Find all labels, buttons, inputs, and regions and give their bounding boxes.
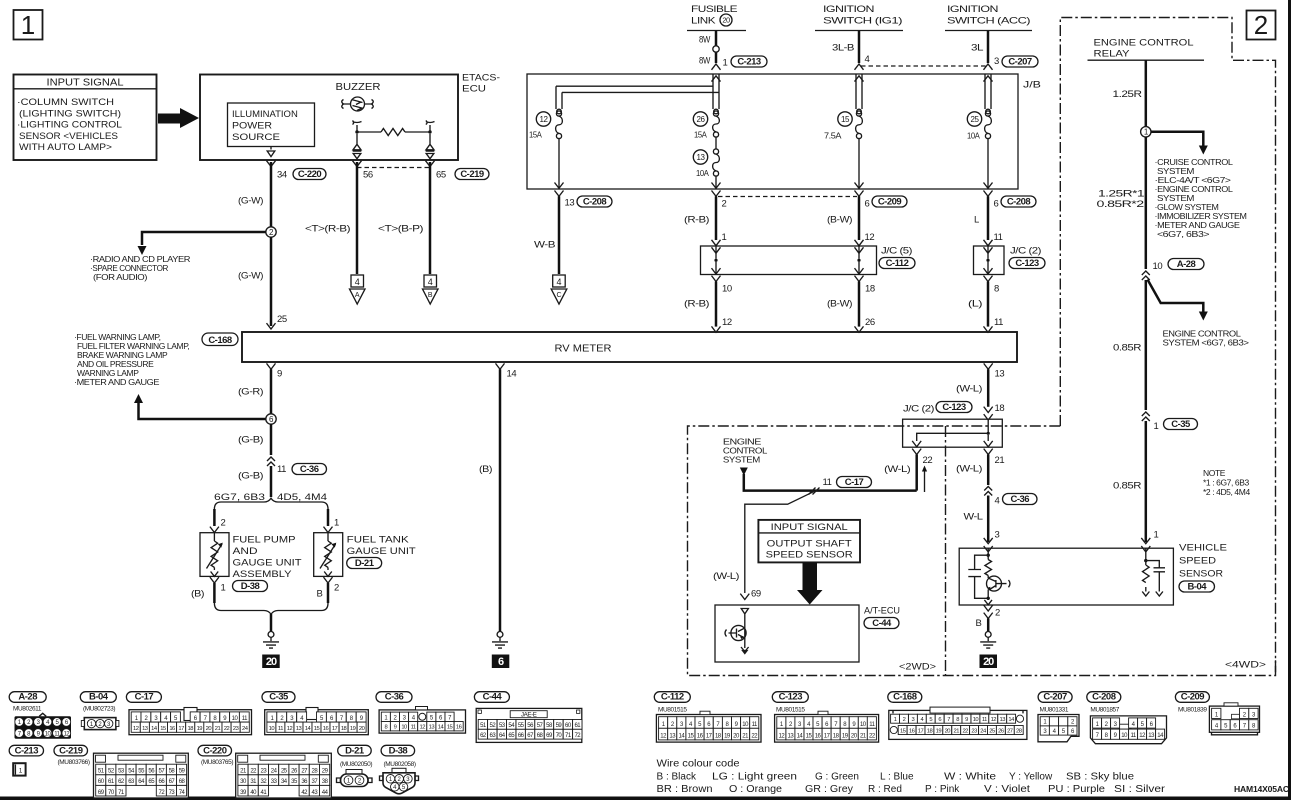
svg-text:C-123: C-123 xyxy=(1015,258,1039,269)
C-112 tab xyxy=(700,711,710,714)
svg-text:26: 26 xyxy=(998,728,1004,734)
node 1 junction xyxy=(1141,127,1151,137)
busbar ACC xyxy=(985,74,991,109)
svg-text:WITH AUTO LAMP>: WITH AUTO LAMP> xyxy=(19,142,112,153)
svg-text:(R-B): (R-B) xyxy=(684,299,709,310)
svg-text:9: 9 xyxy=(277,369,282,380)
svg-text:L: L xyxy=(974,215,979,226)
svg-text:11: 11 xyxy=(982,717,987,723)
svg-text:(W-L): (W-L) xyxy=(884,464,910,475)
svg-text:HAM14X05AC: HAM14X05AC xyxy=(1234,784,1289,794)
connector C-123 drawing xyxy=(775,715,879,743)
svg-text:C-17: C-17 xyxy=(135,692,154,703)
ground marker 20 (4WD) xyxy=(980,655,998,669)
wire colour code xyxy=(657,759,1166,796)
svg-text:10: 10 xyxy=(973,717,979,723)
svg-text:23: 23 xyxy=(971,728,977,734)
svg-text:13: 13 xyxy=(142,726,148,732)
pin 69 xyxy=(740,589,761,600)
svg-text:C-220: C-220 xyxy=(203,745,227,756)
svg-text:A/T-ECU: A/T-ECU xyxy=(864,606,900,617)
fuel pump text + D-38 xyxy=(233,535,302,581)
connector C-208 drawing xyxy=(1090,716,1166,744)
svg-text:4: 4 xyxy=(355,277,360,287)
svg-text:W : White: W : White xyxy=(944,772,997,783)
svg-text:MU801515: MU801515 xyxy=(658,707,687,714)
connector label D-21 xyxy=(338,745,372,756)
svg-text:10A: 10A xyxy=(696,168,709,178)
svg-text:22: 22 xyxy=(224,726,230,732)
svg-text:C-36: C-36 xyxy=(385,692,404,703)
svg-text:POWER: POWER xyxy=(232,121,272,132)
svg-text:C-219: C-219 xyxy=(59,745,83,756)
connector label C-208 xyxy=(1087,692,1121,703)
svg-text:8: 8 xyxy=(956,717,959,723)
svg-text:ASSEMBLY: ASSEMBLY xyxy=(233,569,293,580)
svg-text:19: 19 xyxy=(197,726,203,732)
svg-text:11: 11 xyxy=(278,726,283,732)
svg-text:C: C xyxy=(556,292,561,299)
wire fuse13 out xyxy=(715,176,717,188)
wire 14 B RV meter to ground xyxy=(479,363,516,631)
svg-text:C-35: C-35 xyxy=(1171,419,1191,430)
svg-text:(MU803765): (MU803765) xyxy=(201,759,233,766)
wire T R-B pin56 down xyxy=(356,162,359,274)
wire R-B J/B to J/C5 xyxy=(684,191,727,254)
svg-text:A-28: A-28 xyxy=(18,692,37,703)
svg-text:3: 3 xyxy=(994,56,999,67)
ETACS internal terminal pin34 xyxy=(267,147,275,157)
svg-text:LG : Light green: LG : Light green xyxy=(712,772,797,783)
svg-text:10A: 10A xyxy=(967,131,980,141)
wire to fuel tank pin1 xyxy=(324,509,340,533)
svg-text:10: 10 xyxy=(722,284,732,295)
svg-text:12: 12 xyxy=(287,726,293,732)
connector label C-219 xyxy=(455,169,489,180)
svg-text:3L-B: 3L-B xyxy=(832,43,854,54)
wire G-W node2 to RV meter xyxy=(270,237,273,326)
svg-text:C-208: C-208 xyxy=(1092,692,1116,703)
svg-text:R : Red: R : Red xyxy=(868,784,902,795)
svg-text:10: 10 xyxy=(1153,261,1163,272)
svg-text:B : Black: B : Black xyxy=(657,772,697,783)
svg-text:INPUT SIGNAL: INPUT SIGNAL xyxy=(47,78,124,89)
svg-text:15: 15 xyxy=(447,725,453,731)
resistor in ETACS between contacts xyxy=(353,121,435,136)
svg-text:LINK: LINK xyxy=(691,16,716,27)
pin 1 C-213 xyxy=(723,58,728,69)
svg-text:SB : Sky blue: SB : Sky blue xyxy=(1066,772,1134,783)
svg-text:(G-B): (G-B) xyxy=(238,435,263,446)
svg-text:13: 13 xyxy=(999,717,1005,723)
svg-text:ENGINE CONTROL: ENGINE CONTROL xyxy=(1094,38,1194,49)
svg-text:D-38: D-38 xyxy=(389,745,408,756)
chevron + pin4 C-36 xyxy=(984,487,992,496)
svg-text:C-213: C-213 xyxy=(15,745,39,756)
pin 25 into RV meter xyxy=(267,314,287,329)
svg-text:2: 2 xyxy=(334,583,339,594)
branch to systems list xyxy=(1151,132,1204,146)
svg-text:1: 1 xyxy=(1154,421,1159,432)
systems list xyxy=(1155,157,1247,239)
svg-text:J/C (5): J/C (5) xyxy=(881,246,912,257)
svg-text:MU801857: MU801857 xyxy=(1090,707,1119,714)
big arrow to ATECU xyxy=(797,562,823,604)
connector label C-207 xyxy=(1038,692,1072,703)
svg-text:11: 11 xyxy=(411,725,416,731)
svg-text:18: 18 xyxy=(865,284,875,295)
svg-text:56: 56 xyxy=(363,170,373,181)
wire fuse25 out xyxy=(987,138,989,188)
connector label C-220 xyxy=(293,169,326,180)
busbar IG1 xyxy=(856,74,862,109)
connector label C-207 xyxy=(1002,56,1038,67)
svg-text:JAE-E: JAE-E xyxy=(521,712,537,719)
svg-text:D-38: D-38 xyxy=(241,581,260,592)
VSS internals 4WD-right: resistor + cap to case xyxy=(1142,548,1165,596)
svg-text:15: 15 xyxy=(160,726,166,732)
svg-text:20: 20 xyxy=(983,656,994,668)
svg-text:34: 34 xyxy=(277,170,287,181)
connector label C-17 xyxy=(126,692,161,703)
svg-text:27: 27 xyxy=(1007,728,1013,734)
connector C-35 drawing xyxy=(265,708,369,735)
svg-text:C-44: C-44 xyxy=(872,618,892,629)
svg-text:(MU802058): (MU802058) xyxy=(384,761,416,768)
fuse 13 10A xyxy=(693,137,719,178)
wire 21 W-L xyxy=(956,449,1004,485)
svg-text:0.85R: 0.85R xyxy=(1113,343,1142,354)
svg-text:A: A xyxy=(355,292,360,299)
svg-text:7: 7 xyxy=(947,717,950,723)
svg-text:5: 5 xyxy=(929,717,932,723)
svg-text:11: 11 xyxy=(823,477,832,488)
svg-text:16: 16 xyxy=(169,726,175,732)
ATECU internal ground xyxy=(741,647,749,654)
svg-text:2: 2 xyxy=(722,199,727,210)
svg-text:13: 13 xyxy=(995,369,1005,380)
connector label C-36 xyxy=(1003,494,1038,505)
fuel tank gauge unit R2 xyxy=(314,533,343,577)
svg-text:(R-B): (R-B) xyxy=(684,215,709,226)
ground fuel units xyxy=(268,632,274,638)
connector C-112 drawing xyxy=(656,715,761,743)
svg-text:Y : Yellow: Y : Yellow xyxy=(1009,772,1053,783)
svg-text:(FOR AUDIO): (FOR AUDIO) xyxy=(93,272,148,282)
svg-text:(L): (L) xyxy=(968,299,982,310)
big arrow input signal xyxy=(158,108,199,128)
svg-text:SENSOR <VEHICLES: SENSOR <VEHICLES xyxy=(19,131,118,142)
svg-text:L : Blue: L : Blue xyxy=(880,772,914,783)
svg-text:SPEED SENSOR: SPEED SENSOR xyxy=(766,550,853,561)
connector B-04 drawing xyxy=(81,718,119,730)
svg-text:9: 9 xyxy=(965,717,968,723)
fuel pump pin1 B xyxy=(191,577,226,603)
pin 34 label + C-220 ref xyxy=(267,161,287,181)
connector C-209 drawing xyxy=(1209,703,1259,735)
svg-text:PU : Purple: PU : Purple xyxy=(1048,784,1105,795)
svg-text:19: 19 xyxy=(350,726,356,732)
connector label C-44 xyxy=(864,618,899,629)
join brace bottom xyxy=(214,603,328,614)
C-123 tab xyxy=(818,711,828,714)
wire 3L-B xyxy=(858,31,861,64)
connector label C-35 xyxy=(262,692,295,703)
svg-text:(B-W): (B-W) xyxy=(827,299,852,310)
svg-text:(B): (B) xyxy=(479,464,492,475)
wire L J/B to J/C2 xyxy=(974,191,1003,254)
svg-text:(MU802723): (MU802723) xyxy=(83,706,115,713)
svg-text:B: B xyxy=(976,618,982,629)
fusible link wire 8W xyxy=(715,31,718,64)
svg-text:ETACS-: ETACS- xyxy=(462,73,500,84)
svg-text:<4WD>: <4WD> xyxy=(1225,660,1267,671)
connector C-17 drawing xyxy=(129,708,252,735)
connector label C-123 xyxy=(936,402,972,413)
svg-text:12: 12 xyxy=(540,115,549,124)
svg-text:SI : Silver: SI : Silver xyxy=(1114,784,1166,795)
fuse 12 15A xyxy=(529,111,562,140)
svg-text:10: 10 xyxy=(401,725,407,731)
chevron junction xyxy=(1142,271,1150,280)
svg-text:C-36: C-36 xyxy=(300,464,319,475)
connector label C-36 xyxy=(292,464,327,475)
svg-text:28: 28 xyxy=(1016,728,1022,734)
fuel tank text + D-21 xyxy=(347,535,416,558)
svg-text:<T>(R-B): <T>(R-B) xyxy=(305,224,350,235)
svg-text:20: 20 xyxy=(206,726,212,732)
svg-text:1: 1 xyxy=(894,717,897,723)
connector label B-04 xyxy=(1179,581,1215,592)
wire W-L to sensor xyxy=(964,496,1000,552)
connector label B-04 xyxy=(80,692,116,703)
lower dash-dot box 2WD/4WD xyxy=(688,426,1276,676)
svg-text:O : Orange: O : Orange xyxy=(729,784,782,795)
svg-text:3: 3 xyxy=(995,530,1000,541)
svg-text:MU801515: MU801515 xyxy=(776,707,805,714)
svg-text:8: 8 xyxy=(994,284,999,295)
svg-text:BR : Brown: BR : Brown xyxy=(657,784,713,795)
sheet marker 2 xyxy=(1247,10,1276,40)
fuse 25 10A xyxy=(967,111,991,141)
connector label C-44 xyxy=(474,692,509,703)
connector label C-213 xyxy=(731,56,767,67)
svg-text:10: 10 xyxy=(269,726,275,732)
connector label D-21 xyxy=(347,558,382,569)
svg-text:18: 18 xyxy=(341,726,347,732)
svg-text:18: 18 xyxy=(187,726,193,732)
svg-text:13: 13 xyxy=(697,153,706,162)
svg-text:C-208: C-208 xyxy=(1007,196,1031,207)
connector label C-123 xyxy=(1009,258,1045,269)
svg-text:(W-L): (W-L) xyxy=(713,571,739,582)
wire W-B to connector C xyxy=(555,191,575,275)
svg-text:C-219: C-219 xyxy=(460,169,484,180)
vehicle speed sensor box xyxy=(959,548,1173,605)
svg-text:20: 20 xyxy=(722,16,730,25)
svg-text:16: 16 xyxy=(323,726,329,732)
svg-text:1: 1 xyxy=(19,767,23,774)
wire to ground 20 xyxy=(270,614,273,632)
svg-text:J/B: J/B xyxy=(1023,80,1041,91)
svg-text:15: 15 xyxy=(314,726,320,732)
svg-text:20: 20 xyxy=(945,728,951,734)
svg-text:22: 22 xyxy=(923,455,933,466)
svg-text:3L: 3L xyxy=(971,43,983,54)
ignition switch IG1 label xyxy=(815,4,903,31)
svg-text:C-207: C-207 xyxy=(1008,56,1032,67)
svg-text:2: 2 xyxy=(1254,10,1268,40)
connector label C-220 xyxy=(198,745,232,756)
svg-text:·COLUMN SWITCH: ·COLUMN SWITCH xyxy=(17,97,114,108)
wire 1.25R xyxy=(1145,60,1148,127)
wire T B-P pin65 down xyxy=(429,162,432,274)
wire into J/B IG1 xyxy=(855,64,864,70)
svg-text:RELAY: RELAY xyxy=(1094,49,1131,60)
VSS label xyxy=(1179,543,1227,580)
svg-text:11: 11 xyxy=(994,232,1003,243)
svg-text:21: 21 xyxy=(215,726,221,732)
svg-text:C-123: C-123 xyxy=(942,402,966,413)
junction connector J/C(2) lower box xyxy=(903,419,1003,447)
svg-text:J/C (2): J/C (2) xyxy=(1010,246,1041,257)
svg-text:RV METER: RV METER xyxy=(555,344,612,355)
fuse 15 7.5A xyxy=(824,111,862,141)
node 6 junction xyxy=(266,414,276,424)
svg-text:(W-L): (W-L) xyxy=(956,384,982,395)
svg-text:13: 13 xyxy=(565,198,575,209)
svg-text:GAUGE UNIT: GAUGE UNIT xyxy=(347,546,416,557)
svg-text:D-21: D-21 xyxy=(355,558,375,569)
wire 0.85R lower xyxy=(1145,421,1148,542)
chevron junction C-17 xyxy=(809,488,820,495)
svg-text:8W: 8W xyxy=(699,56,710,67)
pin 65 label + C-219 ref xyxy=(426,161,446,181)
wire fuse12 out xyxy=(558,138,560,188)
region 2 dash-dot border xyxy=(1060,18,1275,674)
svg-text:4: 4 xyxy=(556,277,561,287)
wire pin9 G-R xyxy=(238,363,282,414)
svg-text:13: 13 xyxy=(296,726,302,732)
svg-text:25: 25 xyxy=(277,314,287,325)
wire G-W pin34 down xyxy=(270,162,273,227)
connector C-213 drawing xyxy=(13,763,25,775)
svg-text:C-220: C-220 xyxy=(298,169,322,180)
dashed tie 2-6 xyxy=(718,196,857,198)
connector D-21 drawing xyxy=(337,770,373,787)
svg-text:(G-W): (G-W) xyxy=(238,196,263,207)
svg-text:1: 1 xyxy=(21,10,35,40)
RV meter box xyxy=(242,332,1017,362)
svg-text:2: 2 xyxy=(995,608,1000,619)
wire B-W J/B to J/C5 xyxy=(827,191,874,254)
engine control relay label xyxy=(1088,38,1205,61)
svg-text:C-168: C-168 xyxy=(208,335,232,346)
wire 22 xyxy=(884,449,932,492)
svg-text:·LIGHTING CONTROL: ·LIGHTING CONTROL xyxy=(17,120,122,131)
svg-text:C-112: C-112 xyxy=(661,692,684,703)
svg-text:*2 : 4D5, 4M4: *2 : 4D5, 4M4 xyxy=(1203,487,1250,497)
svg-text:8: 8 xyxy=(384,725,387,731)
svg-text:1.25R: 1.25R xyxy=(1113,89,1143,100)
connector box 4 C xyxy=(551,275,567,304)
svg-text:ILLUMINATION: ILLUMINATION xyxy=(232,109,298,120)
svg-text:18: 18 xyxy=(927,728,933,734)
transistor Q1 ATECU xyxy=(725,625,746,640)
connector label A-28 xyxy=(1168,259,1204,270)
ATECU input terminal xyxy=(741,609,748,649)
svg-text:2: 2 xyxy=(903,717,906,723)
svg-text:P : Pink: P : Pink xyxy=(925,784,960,795)
branch to radio xyxy=(142,232,266,245)
svg-text:17: 17 xyxy=(178,726,184,732)
ground marker 20 xyxy=(262,655,280,669)
connector label C-35 xyxy=(1164,419,1198,430)
connector label C-36 xyxy=(376,692,412,703)
svg-text:(G-B): (G-B) xyxy=(238,471,263,482)
svg-text:12: 12 xyxy=(722,317,732,328)
A/T-ECU box xyxy=(715,605,900,662)
svg-text:0.85R*2: 0.85R*2 xyxy=(1097,199,1144,210)
ground wire14 xyxy=(497,632,503,638)
connector label C-17 xyxy=(837,477,872,488)
svg-text:4: 4 xyxy=(865,54,870,65)
svg-text:21: 21 xyxy=(995,455,1005,466)
connector box 4 A xyxy=(350,275,366,304)
svg-text:(LIGHTING SWITCH): (LIGHTING SWITCH) xyxy=(19,108,121,119)
dashed tie pins 56-65 xyxy=(357,167,430,169)
node 2 junction xyxy=(266,227,276,237)
svg-text:OUTPUT SHAFT: OUTPUT SHAFT xyxy=(767,539,852,550)
svg-text:20: 20 xyxy=(359,726,365,732)
svg-text:SENSOR: SENSOR xyxy=(1179,569,1223,580)
svg-text:C-44: C-44 xyxy=(483,692,503,703)
svg-text:FUEL TANK: FUEL TANK xyxy=(347,535,410,546)
svg-text:C-35: C-35 xyxy=(269,692,289,703)
wire B-W J/C5 to RV meter xyxy=(827,268,875,332)
svg-text:C-36: C-36 xyxy=(1011,494,1030,505)
svg-text:7.5A: 7.5A xyxy=(824,131,842,141)
connector label C-208 xyxy=(1001,196,1036,207)
connector C-220 drawing xyxy=(236,753,332,798)
wire L J/C2 to RV meter xyxy=(968,268,1003,332)
ETACS internal terminal pin56 xyxy=(353,134,362,159)
svg-text:65: 65 xyxy=(436,170,446,181)
svg-text:FUEL PUMP: FUEL PUMP xyxy=(233,535,296,546)
page right border xyxy=(1288,0,1291,800)
connector label C-168 xyxy=(202,333,238,346)
svg-text:1: 1 xyxy=(221,583,226,594)
svg-text:B-04: B-04 xyxy=(1188,581,1208,592)
svg-text:6: 6 xyxy=(498,656,504,668)
svg-text:(W-L): (W-L) xyxy=(956,464,982,475)
wire W-L pin13 down xyxy=(956,363,1004,406)
svg-text:SYSTEM <6G7, 6B3>: SYSTEM <6G7, 6B3> xyxy=(1163,338,1249,348)
svg-text:16: 16 xyxy=(909,728,915,734)
branch to warning lamps xyxy=(134,394,143,403)
connector label C-123 xyxy=(772,692,808,703)
fuel pump and gauge unit R1 xyxy=(200,533,229,577)
svg-text:<6G7, 6B3>: <6G7, 6B3> xyxy=(1157,229,1210,239)
svg-text:69: 69 xyxy=(751,589,761,600)
svg-text:IGNITION: IGNITION xyxy=(823,4,875,15)
ETACS-ECU box xyxy=(200,73,500,161)
svg-text:MU802611: MU802611 xyxy=(13,706,42,713)
engine control system 6G7 label xyxy=(1163,329,1249,348)
svg-text:(G-W): (G-W) xyxy=(238,271,263,282)
wire G-B node6 down xyxy=(238,424,286,497)
svg-text:<T>(B-P): <T>(B-P) xyxy=(378,224,423,235)
